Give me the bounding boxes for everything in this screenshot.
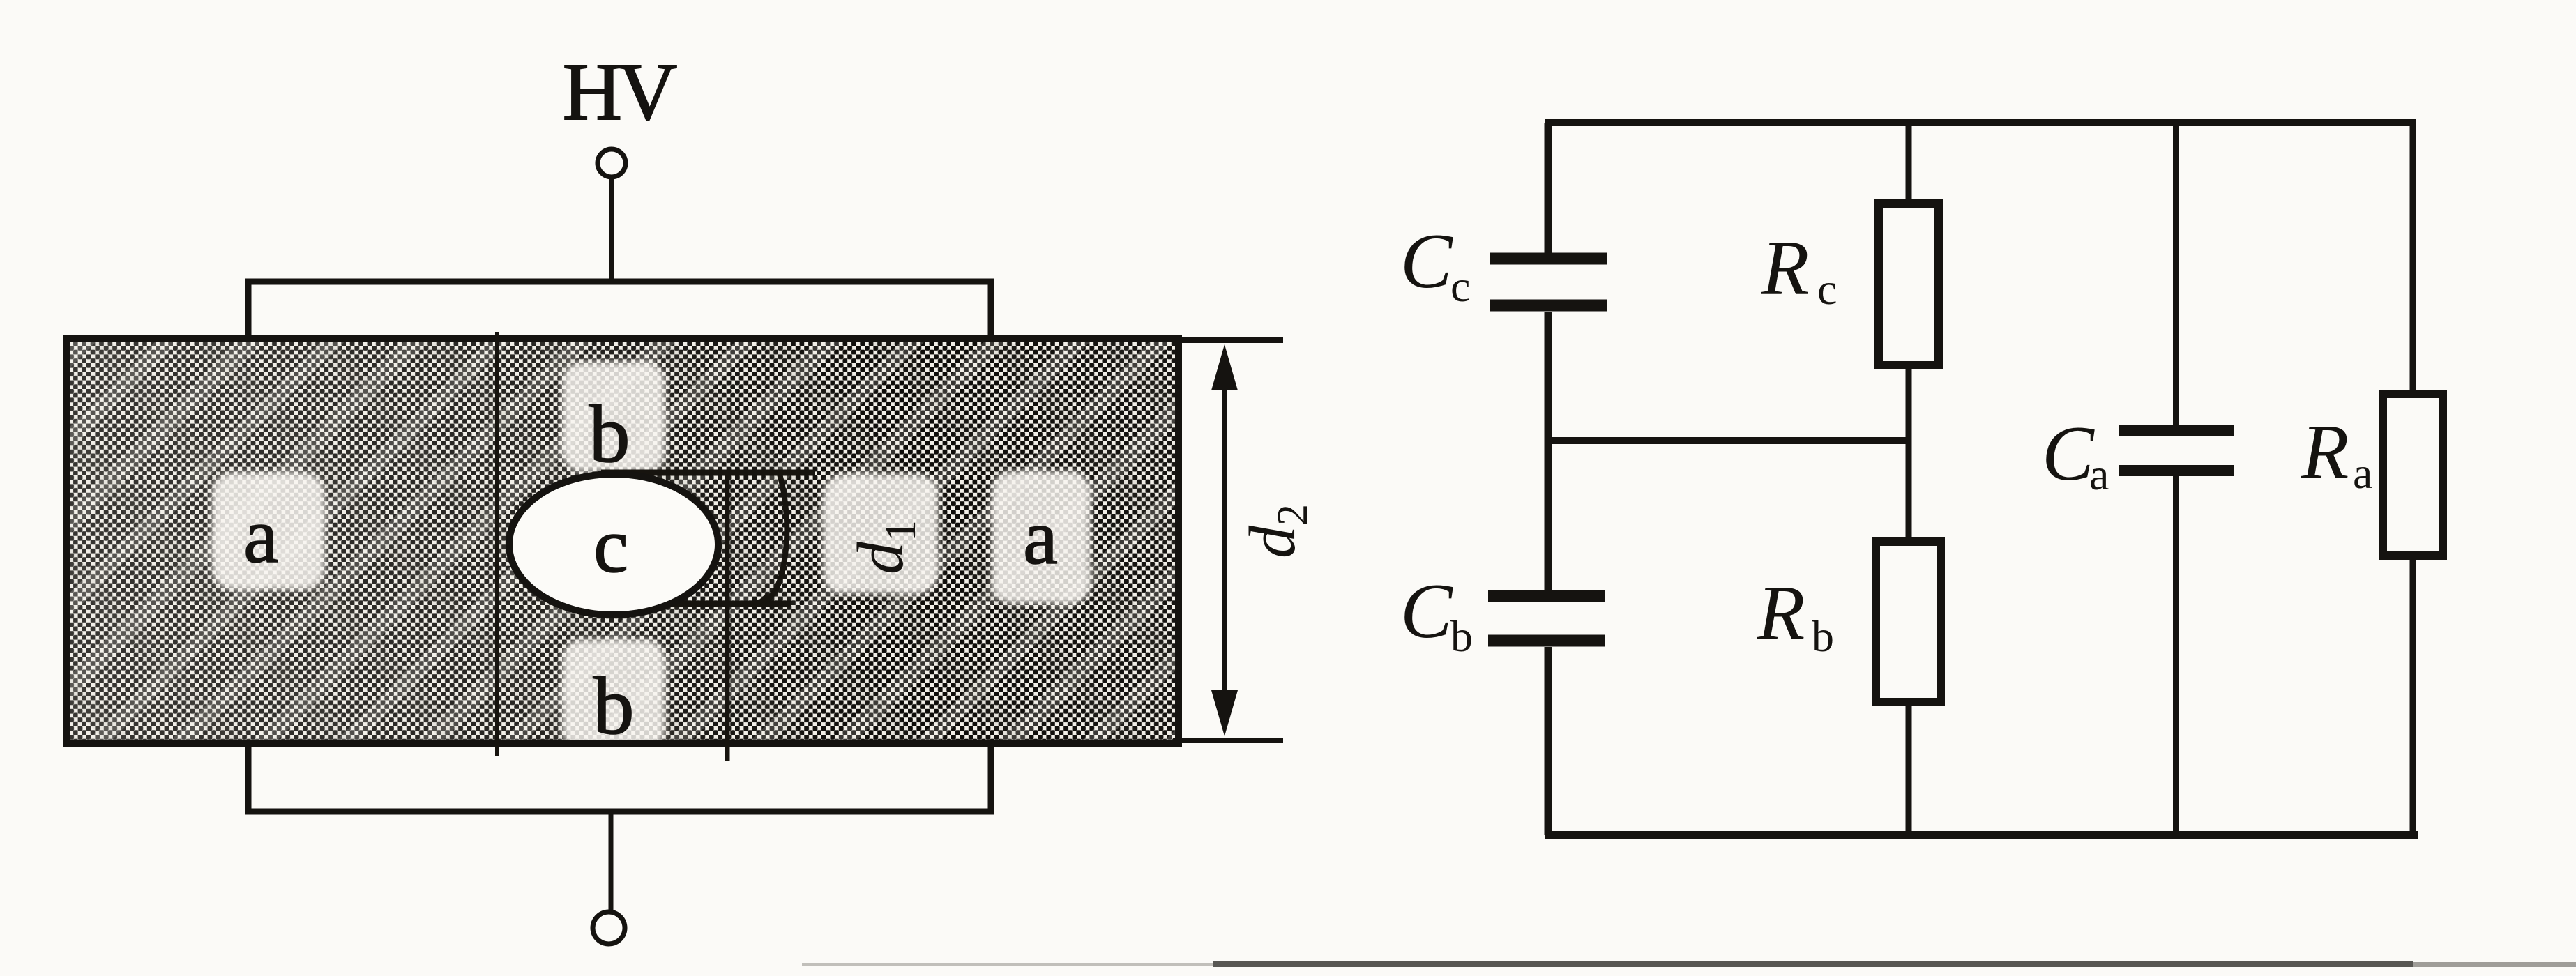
node a right label bbox=[1023, 494, 1058, 581]
svg-text:a: a bbox=[1023, 494, 1058, 581]
wire top bus bbox=[1545, 119, 2416, 126]
label Cb bbox=[1400, 568, 1473, 661]
svg-text:R: R bbox=[2301, 409, 2349, 496]
cavity c bbox=[509, 474, 718, 615]
node a right patch bbox=[992, 471, 1091, 604]
svg-text:a: a bbox=[2353, 448, 2372, 498]
scan artifact bottom bbox=[802, 961, 2576, 967]
wire left branch middle bbox=[1545, 312, 1552, 590]
wire Rc-Rb link bbox=[1906, 363, 1912, 544]
wire Ra branch upper bbox=[2410, 123, 2416, 397]
resistor Rb bbox=[1876, 542, 1941, 702]
bottom terminal bbox=[593, 912, 625, 944]
wire divider left bbox=[495, 332, 499, 756]
svg-text:c: c bbox=[593, 503, 628, 589]
label Rc bbox=[1761, 225, 1837, 314]
svg-text:R: R bbox=[1761, 225, 1809, 312]
wire Ca branch lower bbox=[2173, 475, 2179, 835]
label d1 bbox=[844, 520, 925, 574]
dimension d2 arrow bbox=[1211, 344, 1238, 736]
node b top label bbox=[589, 388, 630, 480]
wire bottom lead bbox=[609, 811, 614, 912]
svg-text:b: b bbox=[1812, 611, 1834, 661]
label HV bbox=[563, 46, 676, 137]
svg-text:b: b bbox=[1450, 611, 1473, 661]
wire left branch upper bbox=[1545, 123, 1552, 255]
top electrode bbox=[248, 282, 991, 342]
resistor Ra bbox=[2383, 394, 2443, 556]
wire cavity top line bbox=[601, 470, 815, 476]
capacitor Cc bbox=[1490, 259, 1607, 305]
svg-text:b: b bbox=[589, 388, 630, 480]
svg-text:a: a bbox=[243, 493, 278, 579]
wire divider right bbox=[725, 473, 730, 761]
wire Ca branch upper bbox=[2173, 123, 2179, 425]
svg-text:R: R bbox=[1757, 570, 1805, 657]
dimension d2 extension bottom bbox=[1173, 738, 1283, 743]
dimension d2 extension top bbox=[1173, 337, 1283, 343]
capacitor Ca bbox=[2119, 430, 2234, 471]
node a left label bbox=[243, 493, 278, 579]
svg-text:c: c bbox=[1817, 264, 1837, 314]
svg-text:a: a bbox=[2089, 450, 2109, 499]
d1 bracket bbox=[753, 474, 787, 605]
node c label bbox=[593, 503, 628, 589]
svg-text:C: C bbox=[2042, 411, 2095, 497]
node a left patch bbox=[212, 473, 325, 590]
label Ra bbox=[2301, 409, 2372, 498]
wire HV lead bbox=[609, 178, 614, 281]
svg-text:HV: HV bbox=[563, 46, 676, 137]
label Rb bbox=[1757, 570, 1834, 661]
svg-text:C: C bbox=[1400, 568, 1453, 655]
node b bottom label bbox=[593, 660, 635, 752]
bottom electrode bbox=[248, 743, 991, 811]
svg-text:b: b bbox=[593, 660, 635, 752]
wire middle node bbox=[1548, 437, 1909, 444]
wire Ra branch lower bbox=[2410, 554, 2416, 835]
label d2 bbox=[1236, 504, 1317, 558]
label Cc bbox=[1400, 218, 1470, 311]
HV terminal bbox=[598, 149, 626, 177]
wire bottom bus bbox=[1545, 831, 2418, 839]
wire left branch lower bbox=[1545, 647, 1552, 835]
node b top patch bbox=[562, 362, 665, 472]
wire cavity bottom line bbox=[626, 601, 791, 607]
wire Rc branch upper bbox=[1906, 123, 1912, 206]
svg-text:C: C bbox=[1400, 218, 1453, 305]
node d1 patch bbox=[823, 474, 939, 594]
capacitor Cb bbox=[1488, 596, 1605, 641]
label Ca bbox=[2042, 411, 2109, 499]
resistor Rc bbox=[1879, 204, 1939, 365]
dielectric block bbox=[67, 339, 1179, 743]
node b bottom patch bbox=[562, 639, 665, 749]
svg-text:c: c bbox=[1450, 261, 1470, 311]
wire Rb lower bbox=[1906, 699, 1912, 835]
